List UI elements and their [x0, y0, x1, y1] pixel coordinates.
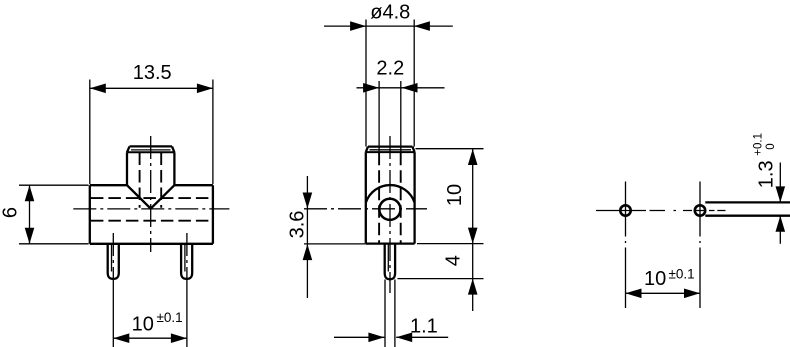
- pin inner line: [387, 244, 389, 271]
- dimension 2.2 line: [357, 87, 445, 89]
- right hole vertical centerline: [699, 182, 701, 309]
- right pin inner line: [184, 245, 186, 272]
- svg-text:±0.1: ±0.1: [669, 267, 695, 282]
- tower chamfer right: [172, 146, 174, 152]
- tower sides: [127, 152, 174, 185]
- body chamfer base line: [366, 151, 415, 153]
- left pin centerline extension: [112, 283, 114, 347]
- dimension 1.1 arrows: [368, 333, 384, 343]
- dimension 1.1 line: [334, 336, 448, 338]
- V notch: [127, 185, 174, 208]
- dimension 3.6 extension line bottom: [304, 243, 366, 245]
- right pin centerline: [186, 233, 188, 283]
- dimension 3.6 line: [306, 176, 308, 298]
- dimension 1.3 line: [779, 163, 781, 244]
- dimension 13.5 arrows: [90, 84, 106, 94]
- svg-text:10: 10: [132, 313, 154, 335]
- svg-text:ø4.8: ø4.8: [370, 1, 410, 23]
- dimension 2.2 arrows: [363, 83, 379, 93]
- body bottom: [366, 242, 415, 244]
- vertical centerline: [389, 136, 391, 293]
- tower top inner thin line: [131, 149, 171, 151]
- svg-text:6: 6: [0, 207, 22, 218]
- dimension 10 +-0.1 arrows (front): [113, 333, 129, 343]
- dimension 13.5 extension lines: [90, 80, 213, 185]
- dimension 6 line: [29, 185, 31, 244]
- dimension 6 arrows: [25, 185, 35, 201]
- right pin: [181, 244, 192, 279]
- svg-text:10: 10: [644, 268, 666, 290]
- svg-text:2.2: 2.2: [376, 58, 404, 80]
- body outline: [90, 185, 213, 244]
- hidden hole lines: [379, 153, 401, 243]
- svg-text:13.5: 13.5: [133, 62, 172, 84]
- pin: [385, 244, 395, 280]
- dimension 10 +-0.1 line (front): [113, 337, 187, 339]
- dimension 13.5 line: [90, 87, 213, 89]
- body top line: [368, 145, 412, 147]
- svg-text:4: 4: [443, 255, 465, 266]
- dimension dia 4.8 extension lines: [366, 20, 414, 147]
- svg-text:±0.1: ±0.1: [157, 310, 183, 325]
- slot bottom line: [705, 215, 790, 217]
- svg-text:10: 10: [444, 184, 466, 206]
- dimension 3.6 arrows: [303, 193, 313, 209]
- svg-text:+0.1: +0.1: [753, 133, 765, 156]
- dimension 4 arrow: [468, 279, 478, 295]
- dimension 10 line (side): [472, 149, 474, 311]
- right extension lines: [398, 149, 484, 279]
- dimension 10 +-0.1 line (footprint): [626, 292, 701, 294]
- hole circle: [379, 199, 400, 220]
- vertical centerline: [150, 136, 152, 252]
- pin edge extension lines: [385, 280, 395, 347]
- tower chamfer base line: [127, 151, 174, 153]
- slot top line: [705, 201, 790, 203]
- left hole vertical centerline: [625, 182, 627, 309]
- left hole: [620, 205, 630, 215]
- hidden lines in body: [91, 198, 212, 221]
- dimension 10 +-0.1 arrows (footprint): [626, 289, 642, 299]
- dimension dia 4.8 arrows: [350, 21, 366, 31]
- svg-text:3.6: 3.6: [287, 211, 309, 239]
- left pin centerline: [112, 233, 114, 283]
- right hole: [695, 205, 705, 215]
- right pin centerline extension: [186, 283, 188, 347]
- body sides: [366, 152, 415, 244]
- dimension 1.3 arrows: [776, 186, 786, 202]
- horizontal centerline: [73, 208, 229, 210]
- svg-text:1.1: 1.1: [410, 316, 438, 338]
- dimension dia 4.8 line: [324, 25, 453, 27]
- horizontal centerline: [304, 208, 427, 210]
- hidden hole lines in tower: [140, 153, 162, 208]
- left pin: [108, 244, 119, 279]
- dimension 6 extension lines: [19, 185, 89, 244]
- svg-text:1.3: 1.3: [756, 160, 778, 188]
- boss arc: [366, 185, 415, 202]
- body top chamfers: [366, 147, 415, 153]
- svg-text:0: 0: [765, 143, 777, 149]
- left pin inner line: [111, 245, 113, 272]
- tower top line: [130, 145, 173, 147]
- dimension 2.2 extension lines: [379, 81, 401, 153]
- tower chamfer left: [127, 146, 130, 152]
- horizontal centerline: [596, 210, 726, 212]
- dimension 10 arrows (side): [468, 149, 478, 165]
- side body top inner thin line: [370, 149, 412, 151]
